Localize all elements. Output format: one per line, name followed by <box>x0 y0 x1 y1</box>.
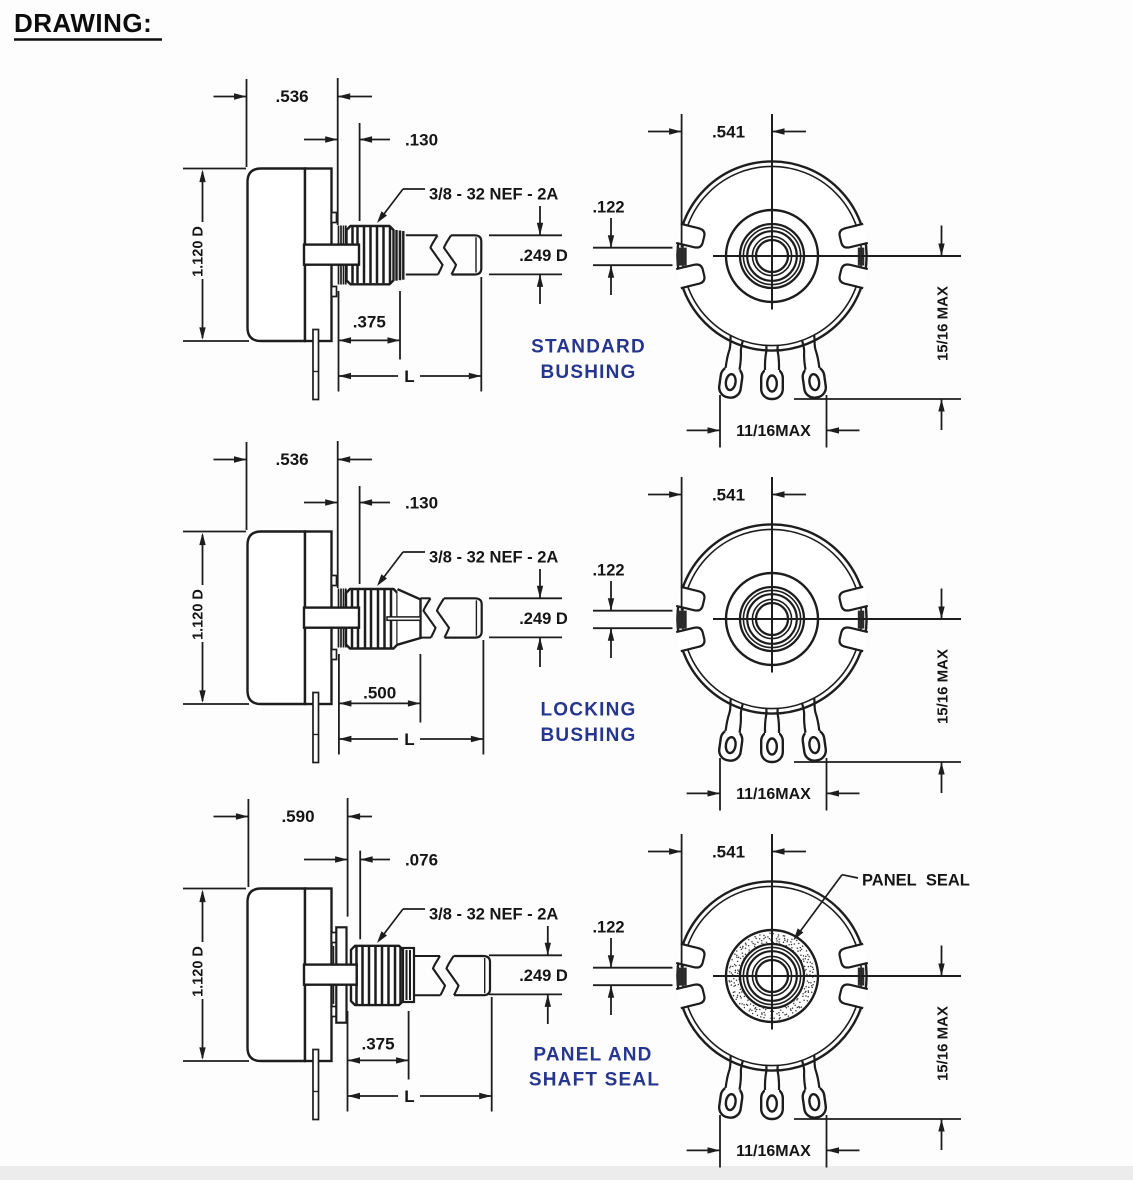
panel seal stipple ring (panel and shaft seal) <box>728 932 815 1019</box>
dimension .249 D (panel and shaft seal) <box>489 926 568 1024</box>
dimension .590 (panel and shaft seal) <box>214 798 373 917</box>
rim notch upper-left (standard bushing) <box>676 263 706 288</box>
dimension .130 (standard bushing) <box>304 123 438 221</box>
svg-text:.541: .541 <box>712 486 745 505</box>
dimension .541 (panel and shaft seal) <box>648 834 806 967</box>
svg-text:.249 D: .249 D <box>519 247 568 265</box>
bushing circle (standard bushing) <box>740 224 804 288</box>
crosshair horizontal centerline (standard bushing) <box>713 255 961 257</box>
svg-text:3/8 - 32 NEF - 2A: 3/8 - 32 NEF - 2A <box>429 186 558 204</box>
pilot ring (panel and shaft seal) <box>403 948 414 1002</box>
svg-text:.536: .536 <box>276 87 309 106</box>
dimension .249 D (locking bushing) <box>489 569 568 667</box>
svg-text:SHAFT SEAL: SHAFT SEAL <box>529 1069 660 1090</box>
svg-text:11/16MAX: 11/16MAX <box>736 1143 811 1160</box>
cover face (panel and shaft seal) <box>682 886 861 1065</box>
dimension 1.120 D (standard bushing) <box>183 169 249 342</box>
cover rim inner circle (locking bushing) <box>682 529 861 708</box>
svg-text:BUSHING: BUSHING <box>540 362 636 383</box>
svg-text:15/16 MAX: 15/16 MAX <box>935 286 952 361</box>
terminal lug right (standard bushing front view) <box>796 330 827 399</box>
plate ear bottom (panel and shaft seal) <box>332 1007 337 1017</box>
svg-text:.122: .122 <box>592 919 624 937</box>
thread callout 3/8 - 32 NEF - 2A (standard bushing) <box>377 186 558 224</box>
dimension 15/16 MAX (locking bushing) <box>794 589 961 794</box>
shaft circle outer (standard bushing) <box>752 236 791 275</box>
svg-text:11/16MAX: 11/16MAX <box>736 786 811 803</box>
svg-text:.076: .076 <box>405 851 438 870</box>
mounting boss circle (panel and shaft seal) <box>726 930 818 1022</box>
terminal lug right (panel and shaft seal front view) <box>796 1050 827 1119</box>
svg-text:1.120 D: 1.120 D <box>191 589 207 640</box>
svg-text:STANDARD: STANDARD <box>531 337 646 358</box>
panel seal callout <box>794 872 970 941</box>
svg-text:L: L <box>404 1087 414 1106</box>
dimension .536 (locking bushing) <box>214 441 373 588</box>
nut circle (panel and shaft seal) <box>747 951 797 1001</box>
dimension .249 D (standard bushing) <box>489 206 568 304</box>
svg-text:15/16 MAX: 15/16 MAX <box>935 649 952 724</box>
locking collet nose (locking bushing) <box>398 589 421 645</box>
svg-text:PANEL AND: PANEL AND <box>533 1045 652 1066</box>
svg-text:.122: .122 <box>592 562 624 580</box>
anti-rotation tab (standard bushing) <box>304 245 359 265</box>
cover rim outer circle (standard bushing) <box>677 161 866 350</box>
label panel and shaft seal <box>529 1045 660 1091</box>
thread callout 3/8 - 32 NEF - 2A (locking bushing) <box>377 549 558 587</box>
svg-text:3/8 - 32 NEF - 2A: 3/8 - 32 NEF - 2A <box>429 906 558 924</box>
dimension .375 (panel and shaft seal) <box>348 1011 409 1112</box>
dimension L (locking bushing) <box>339 640 484 755</box>
mounting plate (locking bushing side view) <box>305 532 332 705</box>
svg-text:.541: .541 <box>712 843 745 862</box>
svg-text:.249 D: .249 D <box>519 610 568 628</box>
dimension 11/16MAX (panel and shaft seal) <box>687 1115 860 1168</box>
shaft circle outer (locking bushing) <box>752 599 791 638</box>
plate ear top (panel and shaft seal) <box>332 933 337 943</box>
bushing inner circle (panel and shaft seal) <box>743 947 800 1004</box>
anti-rotation tab (locking bushing) <box>304 608 359 628</box>
svg-text:1.120 D: 1.120 D <box>191 226 207 277</box>
rim locating tab left (panel and shaft seal) <box>677 968 687 986</box>
nut circle (standard bushing) <box>747 231 797 281</box>
dimension L (standard bushing) <box>339 277 482 392</box>
svg-text:BUSHING: BUSHING <box>540 725 636 746</box>
bushing collar (standard bushing) <box>397 230 404 281</box>
rim notch lower-left (locking bushing) <box>676 587 706 612</box>
terminal lug center (panel and shaft seal front view) <box>761 1052 783 1119</box>
crosshair horizontal centerline (locking bushing) <box>713 618 961 620</box>
dimension .375 (standard bushing) <box>339 291 401 392</box>
label standard bushing <box>531 337 646 383</box>
crosshair vertical centerline (panel and shaft seal) <box>771 834 773 1030</box>
rim notch upper-right (standard bushing) <box>838 263 868 288</box>
washer ring (panel and shaft seal) <box>333 946 335 1004</box>
svg-text:.375: .375 <box>362 1035 395 1054</box>
plate ear top (locking bushing) <box>332 576 337 586</box>
bushing inner circle (standard bushing) <box>743 227 800 284</box>
threaded bushing 3/8-32 (panel and shaft seal) <box>351 946 403 1005</box>
dimension .541 (standard bushing) <box>648 114 806 247</box>
svg-text:11/16MAX: 11/16MAX <box>736 423 811 440</box>
threaded bushing 3/8-32 (standard bushing) <box>347 226 394 284</box>
cover rim outer circle (panel and shaft seal) <box>677 881 866 1070</box>
svg-text:LOCKING: LOCKING <box>540 700 636 721</box>
svg-text:L: L <box>404 367 414 386</box>
rim tab right (panel and shaft seal) <box>858 968 865 986</box>
svg-text:1.120 D: 1.120 D <box>191 946 207 997</box>
shaft with break symbol (panel and shaft seal) <box>414 956 490 995</box>
shaft circle (panel and shaft seal) <box>756 960 788 992</box>
rim tab right (standard bushing) <box>858 248 865 266</box>
mounting boss circle (standard bushing) <box>726 210 818 302</box>
shaft with break symbol (locking bushing) <box>421 598 482 637</box>
terminal lug right (locking bushing front view) <box>796 693 827 762</box>
anti-rotation tab (panel and shaft seal) <box>304 965 357 985</box>
svg-text:.122: .122 <box>592 199 624 217</box>
dimension 15/16 MAX (panel and shaft seal) <box>794 946 961 1151</box>
dimension .122 (standard bushing) <box>592 199 672 296</box>
cover rim inner circle (standard bushing) <box>682 166 861 345</box>
bushing inner circle (locking bushing) <box>743 590 800 647</box>
svg-text:.130: .130 <box>405 131 438 150</box>
dimension 11/16MAX (standard bushing) <box>687 395 860 448</box>
terminal lug (panel and shaft seal side view) <box>313 1050 319 1120</box>
svg-text:PANEL SEAL: PANEL SEAL <box>862 872 970 890</box>
svg-text:L: L <box>404 730 414 749</box>
dimension 15/16 MAX (standard bushing) <box>794 226 961 431</box>
washer rings (standard bushing) <box>339 226 346 285</box>
rim notch lower-right (locking bushing) <box>838 587 868 612</box>
rim notch lower-left (standard bushing) <box>676 224 706 249</box>
cover rim outer circle (locking bushing) <box>677 524 866 713</box>
svg-text:.541: .541 <box>712 123 745 142</box>
shaft circle outer (panel and shaft seal) <box>752 956 791 995</box>
svg-text:.130: .130 <box>405 494 438 513</box>
plate ear top (standard bushing) <box>332 213 337 223</box>
mounting plate (standard bushing side view) <box>305 169 332 342</box>
dimension .122 (panel and shaft seal) <box>592 919 672 1016</box>
terminal lug left (panel and shaft seal front view) <box>718 1050 749 1119</box>
dimension .130 (locking bushing) <box>304 486 438 584</box>
rim notch upper-right (panel and shaft seal) <box>838 983 868 1008</box>
plate ear bottom (standard bushing) <box>332 287 337 297</box>
cover face (locking bushing) <box>682 529 861 708</box>
nut circle (locking bushing) <box>747 594 797 644</box>
panel seal washer (panel and shaft seal) <box>336 927 346 1022</box>
shaft circle (locking bushing) <box>756 603 788 635</box>
svg-text:DRAWING:: DRAWING: <box>14 8 152 38</box>
svg-text:.249 D: .249 D <box>519 967 568 985</box>
mounting boss circle (locking bushing) <box>726 573 818 665</box>
shaft circle (standard bushing) <box>756 240 788 272</box>
crosshair vertical centerline (locking bushing) <box>771 477 773 673</box>
cover rim inner circle (panel and shaft seal) <box>682 886 861 1065</box>
plate ear bottom (locking bushing) <box>332 650 337 660</box>
cover face (standard bushing) <box>682 166 861 345</box>
threaded bushing 3/8-32 (locking bushing) <box>346 589 398 649</box>
terminal lug center (standard bushing front view) <box>761 332 783 399</box>
shaft with break symbol (standard bushing) <box>406 235 482 274</box>
pot can body (panel and shaft seal side view) <box>248 889 306 1062</box>
rim notch upper-right (locking bushing) <box>838 626 868 651</box>
rim notch lower-right (standard bushing) <box>838 224 868 249</box>
svg-text:.590: .590 <box>281 807 314 826</box>
dimension .541 (locking bushing) <box>648 477 806 610</box>
bushing circle (panel and shaft seal) <box>740 944 804 1008</box>
dimension 11/16MAX (locking bushing) <box>687 758 860 811</box>
mounting plate (panel and shaft seal side view) <box>305 889 332 1062</box>
pot can body (locking bushing side view) <box>248 532 306 705</box>
bottom gray band <box>0 1166 1133 1180</box>
rim notch lower-right (panel and shaft seal) <box>838 944 868 969</box>
dimension 1.120 D (panel and shaft seal) <box>183 889 249 1062</box>
thread callout 3/8 - 32 NEF - 2A (panel and shaft seal) <box>377 906 558 944</box>
rim notch upper-left (locking bushing) <box>676 626 706 651</box>
rim locating tab left (standard bushing) <box>677 248 687 266</box>
svg-text:.500: .500 <box>363 684 396 703</box>
rim tab right (locking bushing) <box>858 611 865 629</box>
svg-text:.536: .536 <box>276 450 309 469</box>
dimension .536 (standard bushing) <box>214 78 373 225</box>
title DRAWING: <box>14 8 162 40</box>
bushing circle (locking bushing) <box>740 587 804 651</box>
terminal lug left (standard bushing front view) <box>718 330 749 399</box>
pot can body (standard bushing side view) <box>248 169 306 342</box>
rim notch upper-left (panel and shaft seal) <box>676 983 706 1008</box>
crosshair vertical centerline (standard bushing) <box>771 114 773 310</box>
collet slot (locking bushing) <box>387 617 421 620</box>
label locking bushing <box>540 700 636 746</box>
svg-text:3/8 - 32 NEF - 2A: 3/8 - 32 NEF - 2A <box>429 549 558 567</box>
svg-text:.375: .375 <box>353 313 386 332</box>
terminal lug left (locking bushing front view) <box>718 693 749 762</box>
terminal lug (locking bushing side view) <box>313 693 319 763</box>
rim locating tab left (locking bushing) <box>677 611 687 629</box>
crosshair horizontal centerline (panel and shaft seal) <box>713 975 961 977</box>
terminal lug center (locking bushing front view) <box>761 695 783 762</box>
svg-text:15/16 MAX: 15/16 MAX <box>935 1006 952 1081</box>
dimension L (panel and shaft seal) <box>348 997 492 1112</box>
terminal lug (standard bushing side view) <box>313 330 319 400</box>
washer rings (locking bushing) <box>339 589 346 648</box>
dimension .122 (locking bushing) <box>592 562 672 659</box>
dimension .076 (panel and shaft seal) <box>304 851 438 940</box>
dimension .500 (locking bushing) <box>339 654 421 755</box>
rim notch lower-left (panel and shaft seal) <box>676 944 706 969</box>
dimension 1.120 D (locking bushing) <box>183 532 249 705</box>
